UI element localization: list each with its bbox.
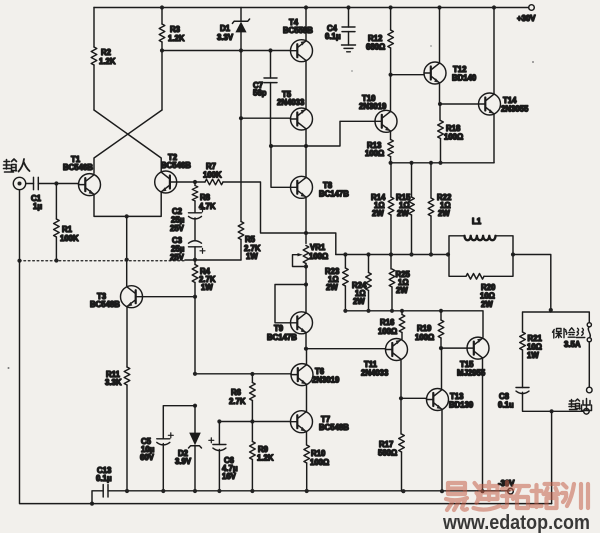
node C3 bottom on fb line	[193, 258, 197, 262]
wire T13 base	[401, 397, 427, 399]
wire T1 emitter	[94, 195, 127, 217]
transistor T1	[79, 174, 101, 196]
node T9/T6/T11	[304, 347, 308, 351]
node T9 collector loop	[304, 282, 308, 286]
wire down to R17	[400, 398, 402, 434]
node D1 on bias line	[239, 48, 243, 52]
wire to output column	[513, 255, 551, 313]
node x195 T6 base tee	[193, 372, 197, 376]
svg-text:BD140: BD140	[452, 74, 477, 83]
wire R2 branch vertical	[93, 8, 95, 111]
wire T9 collector	[305, 285, 307, 314]
svg-text:R6: R6	[231, 388, 242, 397]
保险丝 3.5A label	[553, 328, 585, 338]
svg-text:1.2K: 1.2K	[257, 454, 274, 463]
wire output rail y254.5	[336, 254, 449, 256]
wire cross-couple R2 to T2 collector	[94, 110, 161, 172]
transistor T14	[479, 93, 501, 115]
wire C7 node down to T8 base	[271, 146, 291, 187]
node T12/T14/R18	[438, 102, 442, 106]
输入 input label	[4, 159, 30, 172]
svg-text:BC147B: BC147B	[267, 333, 297, 342]
wire to T12 base	[391, 74, 424, 76]
transistor T7	[291, 411, 313, 433]
node R1 bottom	[54, 258, 58, 262]
transistor T4	[291, 40, 313, 62]
wire return down to outer line	[551, 411, 553, 503]
capacitor C2	[194, 201, 196, 213]
node C1/R1	[54, 181, 58, 185]
node R12 / T10 collector / T12 base	[389, 73, 393, 77]
node T3 base / R4 bottom	[193, 295, 197, 299]
transistor T5	[291, 108, 313, 130]
node T8 emitter / R7 net	[304, 231, 308, 235]
node C5 branch	[193, 404, 197, 408]
wire T15 collector down	[482, 358, 484, 491]
wire T15 base	[441, 347, 467, 349]
svg-text:2W: 2W	[481, 300, 493, 309]
capacitor C13 in ground jog	[90, 502, 94, 506]
wire bias net horizontal	[271, 121, 375, 146]
wire T6 base	[195, 373, 291, 375]
fuse 保险丝	[587, 323, 591, 327]
wire x241 down to R5	[240, 118, 242, 260]
wire x195 down	[194, 297, 196, 374]
wire T7 base line	[219, 421, 290, 423]
zener D1	[232, 19, 249, 23]
wire T2 emitter	[127, 192, 162, 216]
inductor L1 block	[449, 236, 513, 255]
svg-text:BD139: BD139	[449, 401, 474, 410]
wire to C5	[163, 406, 195, 439]
wire x241 down to T5 base node	[240, 51, 242, 119]
terminal -30V	[508, 488, 514, 494]
node T4 collector top rail	[304, 5, 308, 9]
wire to T14 base	[440, 103, 478, 105]
node T5 collector / bias net	[304, 144, 308, 148]
node R7 / R8 / T2 base	[193, 180, 197, 184]
resistor R12	[389, 5, 393, 9]
wire T10 emitter / resistor R13	[390, 131, 392, 140]
node C7 bottom	[269, 144, 273, 148]
node L1 right	[511, 252, 515, 256]
svg-text:1μ: 1μ	[33, 202, 42, 211]
svg-text:BC548B: BC548B	[319, 423, 349, 432]
capacitor C5	[157, 439, 170, 445]
resistor R11	[124, 367, 130, 385]
svg-text:D1: D1	[220, 24, 231, 33]
svg-text:2N4033: 2N4033	[277, 98, 305, 107]
resistor R25	[390, 255, 392, 270]
svg-text:0.1μ: 0.1μ	[96, 474, 112, 483]
svg-text:2W: 2W	[397, 209, 409, 218]
wire T3 emitter down	[126, 307, 128, 491]
node output return	[550, 409, 554, 413]
wire T6 emitter to T7	[306, 384, 308, 412]
terminal fuse out	[587, 387, 593, 393]
wire jack to C1	[26, 183, 34, 185]
resistor R15	[411, 163, 413, 197]
svg-text:2W: 2W	[438, 209, 450, 218]
wire T8 collector up	[305, 146, 307, 178]
svg-text:2N3055: 2N3055	[501, 105, 529, 114]
wire -30V rail right end	[401, 489, 405, 493]
svg-text:VR1: VR1	[310, 243, 326, 252]
wire mid rail y162.8	[391, 162, 494, 164]
svg-text:2W: 2W	[326, 283, 338, 292]
wire R3 branch vertical	[161, 8, 163, 111]
node T5 base tee	[239, 116, 243, 120]
transistor T15	[467, 337, 489, 359]
wire T7 emitter / resistor R10	[306, 431, 308, 445]
wire T3 base to R4 node	[143, 296, 196, 298]
svg-text:100Ω: 100Ω	[365, 149, 384, 158]
node C7 top	[268, 48, 272, 52]
svg-text:100K: 100K	[60, 234, 79, 243]
svg-text:25V: 25V	[170, 253, 185, 262]
wire VR1 to T9	[305, 267, 307, 285]
resistor R7	[205, 179, 223, 185]
svg-text:MJ2955: MJ2955	[457, 369, 486, 378]
input jack connector	[13, 177, 25, 189]
svg-text:BC546B: BC546B	[161, 161, 191, 170]
svg-text:1.2K: 1.2K	[99, 57, 116, 66]
transistor T12	[424, 62, 446, 84]
svg-text:2N4033: 2N4033	[361, 369, 389, 378]
wire feedback line (dashed look)	[20, 260, 186, 262]
wire T13 emitter	[441, 409, 443, 491]
node output split	[549, 308, 553, 312]
wire cross-couple R3 to T1 collector	[94, 110, 162, 173]
svg-text:2W: 2W	[372, 209, 384, 218]
resistor R6	[251, 374, 253, 383]
svg-text:R10: R10	[311, 449, 326, 458]
svg-text:R8: R8	[200, 193, 211, 202]
svg-text:100K: 100K	[203, 171, 222, 180]
svg-text:R2: R2	[101, 48, 112, 57]
svg-text:16V: 16V	[222, 472, 237, 481]
svg-text:BC147B: BC147B	[319, 190, 349, 199]
wire T4 to T5	[305, 60, 307, 109]
svg-text:L1: L1	[472, 217, 482, 226]
svg-text:25V: 25V	[170, 224, 185, 233]
svg-text:3.3V: 3.3V	[217, 33, 234, 42]
svg-text:BC558B: BC558B	[283, 26, 313, 35]
svg-text:1W: 1W	[527, 351, 539, 360]
capacitor C6	[218, 422, 220, 445]
输出 output label	[569, 399, 592, 411]
resistor R19	[440, 311, 442, 320]
wire tail down to T3	[126, 216, 128, 285]
capacitor C8	[516, 388, 529, 394]
wire T8 emitter down	[305, 197, 307, 244]
wire R1 branch	[55, 184, 57, 261]
resistor R17	[399, 434, 405, 452]
resistor R14	[390, 163, 392, 197]
terminal +30V	[529, 5, 535, 11]
svg-text:R5: R5	[245, 235, 256, 244]
wire R7 to bias point	[223, 182, 336, 255]
svg-text:BC546B: BC546B	[63, 163, 93, 172]
resistor R20 in block	[449, 255, 466, 277]
capacitor C4	[346, 5, 350, 9]
svg-text:2W: 2W	[353, 297, 365, 306]
wire T9 emitter to node	[305, 333, 307, 349]
svg-text:2N3019: 2N3019	[359, 102, 387, 111]
wire fuse branch	[551, 312, 590, 323]
svg-text:1W: 1W	[246, 252, 258, 261]
potentiometer VR1	[303, 246, 309, 264]
transistor T9	[291, 312, 313, 334]
transistor T11	[386, 339, 408, 361]
resistor R23	[344, 255, 346, 269]
wire T5 collector down	[305, 129, 307, 146]
wire T6 collector	[306, 349, 308, 365]
svg-text:2N3019: 2N3019	[312, 376, 340, 385]
transistor T3 (mirrored, base right)	[121, 286, 143, 308]
wire T12 emitter down	[439, 83, 441, 104]
wire rail y310.8	[345, 311, 483, 338]
zener D2	[194, 406, 196, 433]
capacitor C3	[194, 218, 196, 240]
svg-text:R3: R3	[170, 25, 181, 34]
node T13 base	[399, 396, 403, 400]
wire D1 branch from top rail	[240, 8, 242, 21]
specks	[8, 367, 10, 369]
svg-text:100Ω: 100Ω	[378, 327, 397, 336]
wire T4 to rail	[305, 8, 307, 42]
svg-text:1.2K: 1.2K	[168, 34, 185, 43]
resistor R9	[251, 422, 253, 442]
wire T5 base	[241, 117, 291, 119]
wire bias line to T4 base	[162, 50, 291, 52]
resistor R2	[91, 47, 97, 65]
capacitor C1	[34, 177, 39, 189]
node T12 top rail	[437, 5, 441, 9]
wire outer bottom line	[92, 503, 552, 505]
wire T14 collector to rail	[492, 5, 496, 9]
svg-text:2.7K: 2.7K	[229, 397, 246, 406]
svg-text:100Ω: 100Ω	[444, 133, 463, 142]
capacitor C7	[270, 51, 272, 79]
wire T2 base to node	[176, 181, 205, 183]
svg-text:0.1u: 0.1u	[498, 401, 514, 410]
node fb line left end	[17, 259, 21, 263]
transistor T10	[375, 110, 397, 132]
resistor R5	[238, 222, 244, 240]
svg-text:1W: 1W	[201, 283, 213, 292]
svg-text:3.5A: 3.5A	[564, 340, 581, 349]
svg-text:680Ω: 680Ω	[366, 43, 385, 52]
wire C1 to T1 base	[38, 183, 78, 185]
svg-text:100Ω: 100Ω	[309, 252, 328, 261]
svg-text:www.edatop.com: www.edatop.com	[442, 511, 590, 533]
nodes on -30V rail	[125, 489, 129, 493]
wire T9 base loop	[275, 285, 306, 323]
wire to R21 branch	[523, 312, 551, 332]
svg-text:BC548B: BC548B	[90, 300, 120, 309]
node R3 top	[160, 5, 164, 9]
svg-text:3.9V: 3.9V	[175, 457, 192, 466]
node T15 base tee	[439, 346, 443, 350]
node R3 bottom to D1 net	[160, 48, 164, 52]
terminal output lower	[584, 409, 590, 415]
wire T10 collector	[390, 75, 392, 112]
wire +30V top rail	[94, 7, 529, 9]
wire node to T11 base	[306, 348, 385, 350]
svg-text:560Ω: 560Ω	[378, 449, 397, 458]
wire jack ground down left side	[20, 190, 93, 504]
wire T13 collector up	[441, 348, 443, 390]
transistor T13	[427, 389, 449, 411]
svg-text:3.3K: 3.3K	[105, 378, 122, 387]
node R6 top	[250, 372, 254, 376]
transistor T2 (mirrored)	[155, 171, 177, 193]
svg-text:60V: 60V	[140, 453, 155, 462]
resistor R22	[430, 163, 432, 198]
resistor R3	[159, 24, 165, 42]
svg-text:R1: R1	[62, 225, 73, 234]
resistor R24	[368, 255, 370, 273]
watermark 易迪拓培训	[446, 482, 588, 510]
resistor R16	[401, 311, 403, 315]
wire T14 emitter down to mid rail	[493, 114, 495, 163]
resistor R1	[54, 219, 60, 237]
resistor R18	[439, 104, 441, 121]
wire T11 collector down	[400, 359, 402, 398]
svg-text:R16: R16	[380, 318, 395, 327]
resistor R21	[520, 332, 526, 350]
node tail join	[125, 214, 129, 218]
transistor T6	[291, 364, 313, 386]
svg-text:0.1μ: 0.1μ	[325, 32, 341, 41]
svg-text:100Ω: 100Ω	[415, 333, 434, 342]
svg-text:R19: R19	[417, 324, 432, 333]
svg-text:100Ω: 100Ω	[310, 458, 329, 467]
svg-text:56p: 56p	[253, 89, 267, 98]
node tail crossing ground line	[125, 258, 129, 262]
svg-text:T9: T9	[274, 324, 284, 333]
transistor T8	[291, 176, 313, 198]
resistor R4	[194, 260, 196, 265]
svg-text:2W: 2W	[396, 286, 408, 295]
resistor R8	[194, 182, 196, 186]
svg-text:+30V: +30V	[517, 14, 536, 23]
